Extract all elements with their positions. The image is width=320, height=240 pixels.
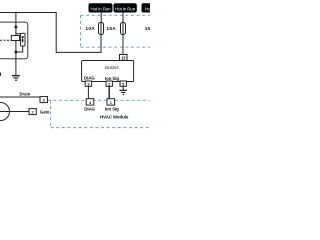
clipped symbol fragment at left edge: [0, 73, 1, 77]
fuse block boundary dashed (underhood fuse block): [81, 15, 150, 47]
wire top supply rail from left edge to corner: [0, 13, 101, 53]
wire relay switch bottom to junction: [16, 46, 23, 52]
fuse F1 10A: [99, 23, 104, 35]
svg-text:Hot In Run: Hot In Run: [90, 6, 111, 11]
HVAC module boundary dashed: [48, 100, 150, 127]
svg-text:Gate: Gate: [40, 109, 50, 114]
wire drain from left edge to pin 3: [0, 96, 40, 98]
svg-text:Ion Sig: Ion Sig: [105, 76, 119, 81]
relay K1 housing cut off at left edge: [0, 22, 28, 59]
label Hot In Run fuse 2: [114, 4, 136, 12]
wire rail drop to relay coil: [15, 13, 17, 36]
wire ionizer pin3 to module pin 4: [87, 86, 89, 98]
svg-text:13: 13: [121, 55, 126, 60]
label Hot In Run fuse 1: [89, 4, 112, 12]
wire relay to ground: [15, 59, 17, 76]
module pin 3 box drain: [40, 97, 48, 103]
relay switch contacts: [20, 33, 25, 46]
wire fuse2 to pin 13: [122, 35, 124, 55]
wire branch to relay switch: [16, 33, 23, 35]
wire fuse2 top lead: [122, 12, 124, 23]
svg-text:15A: 15A: [106, 26, 116, 32]
svg-text:2: 2: [108, 82, 110, 86]
ionizer U1 box: [82, 61, 134, 82]
ionizer pin 3 box: [85, 81, 91, 86]
wire device to pin 2 gate: [0, 111, 29, 113]
relay coil: [11, 36, 19, 41]
ionizer needle device circle: [0, 103, 10, 121]
ground G1: [12, 76, 20, 81]
module pin 2 box gate: [29, 109, 36, 115]
svg-text:1: 1: [110, 101, 112, 105]
svg-text:Hot In Run: Hot In Run: [145, 6, 150, 11]
svg-text:Ion Sig: Ion Sig: [105, 107, 119, 112]
pin 13 connector box: [120, 55, 128, 61]
ionizer pin 5 box: [120, 81, 126, 86]
svg-text:DIAG: DIAG: [84, 76, 95, 81]
module pin 1 box: [107, 99, 115, 105]
svg-text:10A: 10A: [85, 26, 95, 32]
wire fuse1 top lead: [100, 12, 102, 23]
label Hot In Run fuse 3 clipped at right edge: [142, 4, 168, 12]
ground G2: [119, 90, 127, 94]
svg-text:DIAG: DIAG: [84, 106, 95, 111]
relay armature dashed link: [0, 39, 11, 41]
fuse F2 15A: [121, 23, 126, 35]
svg-text:15A: 15A: [145, 26, 150, 32]
svg-text:3: 3: [43, 98, 45, 102]
svg-text:2: 2: [32, 110, 34, 114]
svg-text:HVAC Module: HVAC Module: [100, 115, 129, 120]
node junction dot upper relay feed: [14, 26, 17, 29]
module pin 4 box: [86, 99, 94, 105]
wire relay coil bottom to junction: [15, 41, 17, 59]
svg-text:5: 5: [122, 82, 124, 86]
ionizer pin 2 box: [106, 81, 112, 86]
svg-text:Ionizer: Ionizer: [105, 65, 119, 70]
wire ionizer pin5 to ground: [122, 86, 124, 90]
svg-text:Drain: Drain: [19, 91, 30, 96]
node junction dot relay ground: [14, 51, 17, 54]
svg-text:Hot In Run: Hot In Run: [115, 6, 136, 11]
wire ionizer pin2 to module pin 1: [108, 86, 110, 98]
svg-text:3: 3: [87, 82, 89, 86]
